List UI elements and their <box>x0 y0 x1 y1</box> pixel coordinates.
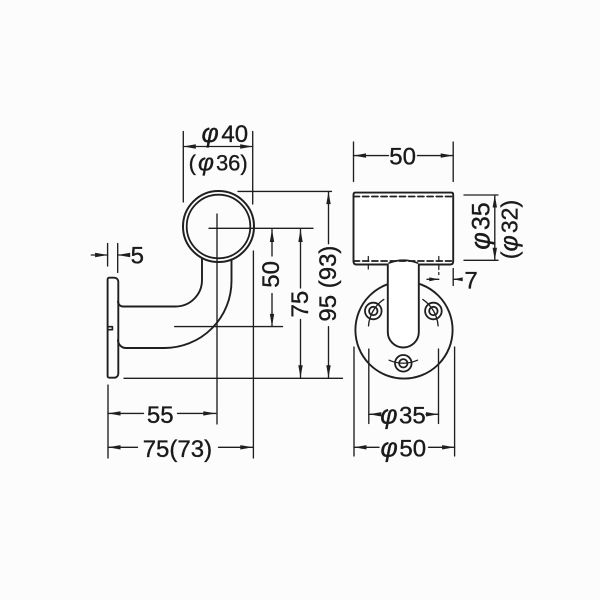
svg-text:φ35: φ35 <box>466 202 496 249</box>
phi40 ext right <box>252 132 254 205</box>
bolt-circle arc right <box>423 299 438 326</box>
phi40 ext left <box>182 132 184 203</box>
phi35 bottom dim line <box>369 413 380 415</box>
svg-text:5: 5 <box>131 243 144 270</box>
dimension thin lines, left view <box>91 132 342 459</box>
phi35 right vertical arrows <box>493 195 497 208</box>
PCD tick left <box>367 257 369 270</box>
svg-text:95 (93): 95 (93) <box>315 246 342 322</box>
bottom ext line <box>124 377 343 379</box>
dim 50 top arrows (right view) <box>354 153 367 157</box>
svg-text:φ35: φ35 <box>380 399 426 429</box>
dim 5 ext right <box>117 244 119 273</box>
phi40 arrows <box>183 144 196 148</box>
svg-text:75: 75 <box>287 291 314 318</box>
dim 75 vertical line <box>300 230 302 289</box>
wall plate <box>108 278 119 378</box>
dim 7 line left tail <box>427 278 439 280</box>
plate screw-hole notch <box>108 327 112 330</box>
dim 95(93) vertical line <box>328 192 330 244</box>
dim 5 arrows <box>95 253 108 257</box>
phi35 bottom arrows <box>369 412 382 416</box>
dim 50 ext right <box>452 142 454 182</box>
dim 5 line right tail <box>118 254 128 256</box>
dim 7 arrows <box>429 277 439 281</box>
phi35 bottom ext left <box>368 349 370 424</box>
dim 75(73) arrows <box>108 445 121 449</box>
ext line ring top (95 dim) <box>238 190 332 192</box>
centerline vertical <box>216 214 218 424</box>
screw hole left outer <box>365 303 382 320</box>
screw hole right outer <box>425 303 442 320</box>
screw hole left inner <box>369 307 377 315</box>
ext line plate left bottom <box>107 385 109 458</box>
arm outer (lower) outline <box>118 260 232 349</box>
dim 75(73) line <box>108 446 138 448</box>
svg-text:φ50: φ50 <box>381 432 427 462</box>
dim 50 line <box>354 155 389 157</box>
arm axis ext line <box>175 326 283 328</box>
dimension thin lines, right view <box>354 142 499 456</box>
base plate circle <box>355 281 452 378</box>
bore hidden line bottom <box>354 260 454 262</box>
dim 7 line right tail <box>453 278 458 280</box>
phi35 bottom ext right <box>438 349 440 424</box>
socket cylinder and stem silhouette <box>354 193 454 348</box>
phi50 ext left <box>353 347 355 456</box>
svg-text:50: 50 <box>258 261 285 288</box>
phi50 ext right <box>454 347 456 456</box>
phi50 dim line <box>354 446 379 448</box>
PCD tick right / dim 7 ext left <box>438 257 440 275</box>
phi35 dim line vertical <box>494 195 496 260</box>
screw hole bottom inner <box>399 359 407 367</box>
svg-text:(φ32): (φ32) <box>496 200 524 259</box>
dim 5 ext left <box>107 244 109 267</box>
svg-text:55: 55 <box>147 402 174 429</box>
svg-text:7: 7 <box>464 267 477 294</box>
centerline horizontal <box>209 227 313 229</box>
dim 50 vertical arrows <box>270 230 274 243</box>
bolt-circle arc left <box>369 299 384 326</box>
ring centerline cross <box>209 214 313 424</box>
dim 75 vertical arrows <box>298 230 302 243</box>
phi35 ext bottom right <box>464 259 498 261</box>
ext line ring right tangent <box>252 251 254 458</box>
phi35 ext top right <box>464 194 498 196</box>
svg-text:(φ36): (φ36) <box>189 150 248 177</box>
dim 55 line <box>108 412 144 414</box>
phi40 dim line <box>183 146 252 148</box>
stem saddle arc <box>389 260 418 263</box>
ring outer circle <box>183 191 254 262</box>
dim 50 ext left <box>353 142 355 182</box>
bore hidden line top <box>354 196 454 198</box>
svg-text:75(73): 75(73) <box>143 436 212 463</box>
dim 7 ext right <box>452 269 454 286</box>
screw hole right inner <box>429 307 437 315</box>
arm inner (upper) outline <box>118 258 202 307</box>
svg-text:φ40: φ40 <box>202 118 249 148</box>
dim 55 arrows <box>108 411 121 415</box>
svg-text:50: 50 <box>389 144 416 171</box>
dim 5 line left tail <box>91 254 107 256</box>
ring inner circle <box>187 195 251 259</box>
dim 95 vertical arrows <box>326 192 330 205</box>
phi50 arrows <box>354 445 367 449</box>
dim 50 vertical line <box>271 230 273 257</box>
screw hole bottom outer <box>395 355 412 372</box>
bolt-circle arc bottom <box>389 360 417 363</box>
